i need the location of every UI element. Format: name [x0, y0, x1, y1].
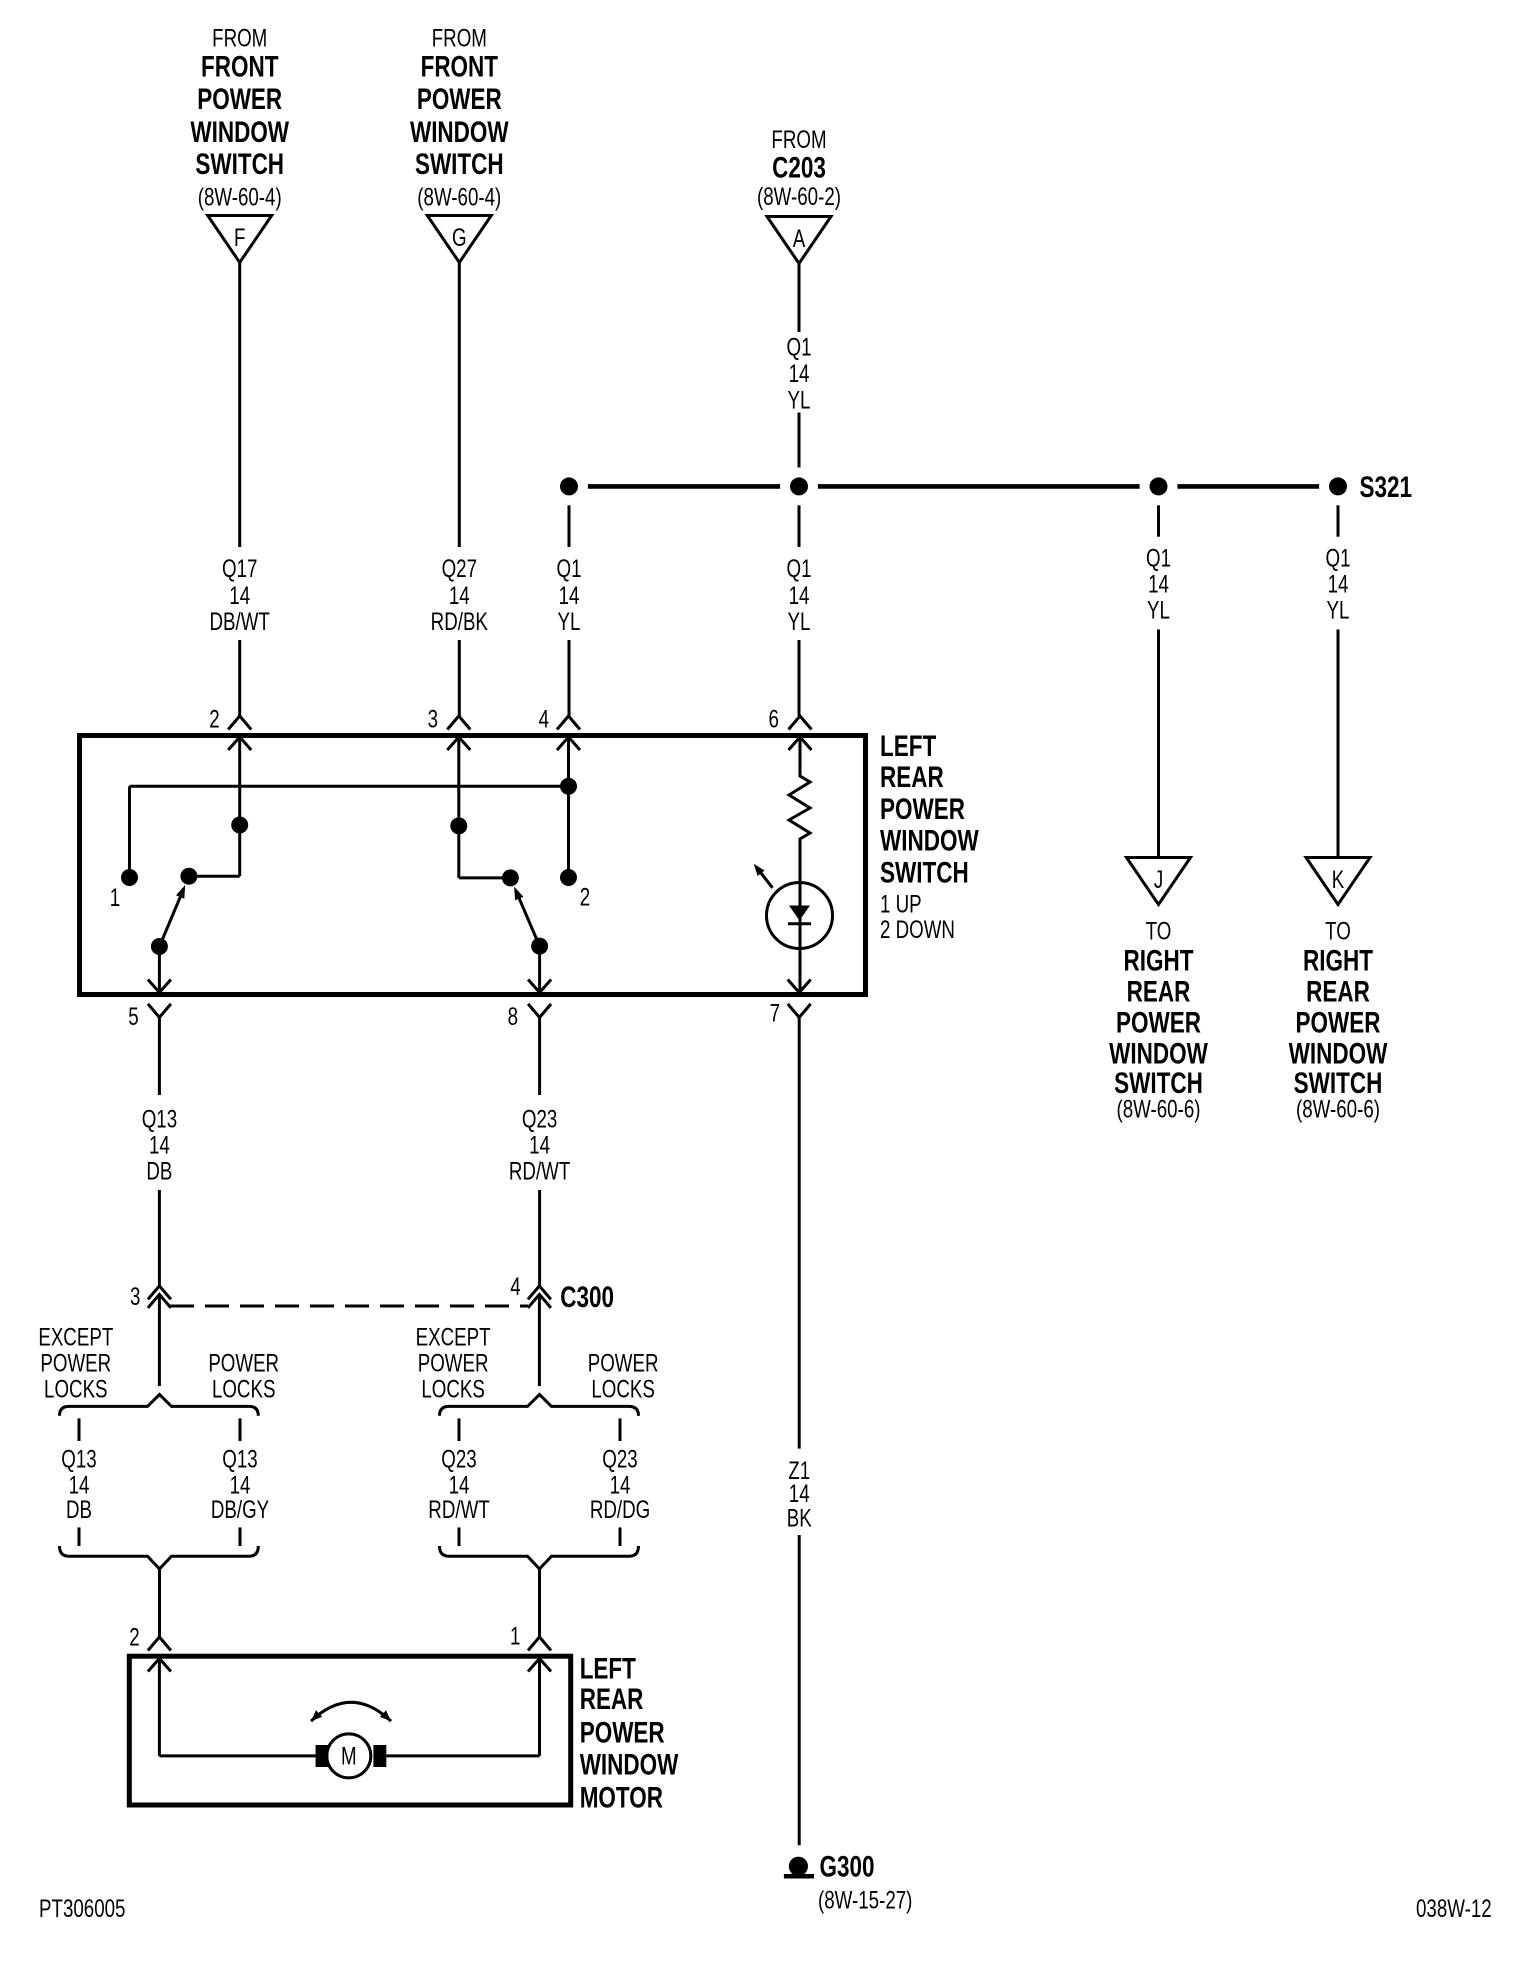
svg-text:YL: YL [1327, 596, 1350, 624]
wire label Q27 14 RD/BK [431, 555, 488, 636]
svg-text:8: 8 [508, 1002, 518, 1030]
wire Z1 14 BK from switch pin 7 to ground G300 [798, 1017, 801, 1845]
connector A (from C203) [767, 217, 831, 264]
svg-text:RIGHT: RIGHT [1124, 943, 1194, 977]
svg-text:POWER: POWER [417, 82, 502, 116]
svg-text:LEFT: LEFT [880, 729, 936, 763]
svg-text:2: 2 [129, 1623, 139, 1651]
switch arm (right pole) with arrowhead [514, 887, 540, 947]
left rear power window motor M1 (body) [129, 1656, 570, 1805]
svg-text:M: M [341, 1742, 357, 1770]
splice junction dot (connector J drop) [1140, 467, 1178, 505]
branch stub lower (Q23 RD/WT) [458, 1527, 461, 1546]
svg-text:REAR: REAR [1127, 974, 1191, 1008]
motor right brush [373, 1745, 386, 1767]
connector J (to right rear power window switch) [1127, 858, 1191, 905]
svg-text:LOCKS: LOCKS [44, 1375, 108, 1403]
svg-text:Q23: Q23 [441, 1445, 476, 1473]
svg-text:RD/BK: RD/BK [431, 608, 488, 636]
connector G label: FROM FRONT POWER WINDOW SWITCH (8W-60-4) [410, 24, 509, 211]
switch pin 3 connector halves [447, 716, 470, 750]
option brace lower (left group) [60, 1546, 259, 1569]
left pole wire to pin 5 [158, 947, 161, 992]
motor name label: LEFT REAR POWER WINDOW MOTOR [580, 1652, 679, 1815]
svg-text:3: 3 [428, 705, 438, 733]
svg-text:14: 14 [789, 581, 810, 609]
svg-text:14: 14 [789, 359, 810, 387]
motor left brush [316, 1745, 329, 1767]
LED emission arrow [754, 864, 773, 888]
branch stub lower (Q23 RD/DG) [619, 1527, 622, 1546]
svg-text:MOTOR: MOTOR [580, 1780, 663, 1814]
svg-text:WINDOW: WINDOW [190, 115, 289, 149]
connector J label: TO RIGHT REAR POWER WINDOW SWITCH (8W-60-6) [1109, 917, 1208, 1123]
svg-text:RD/DG: RD/DG [590, 1496, 650, 1524]
svg-text:14: 14 [559, 581, 580, 609]
svg-text:Q13: Q13 [222, 1445, 257, 1473]
wire Q17 14 DB/WT from connector F to switch pin 2 [238, 263, 241, 717]
svg-text:1 UP: 1 UP [880, 890, 922, 918]
svg-text:POWER: POWER [580, 1715, 665, 1749]
junction dot rail/pin 4 [560, 778, 577, 795]
svg-text:(8W-15-27): (8W-15-27) [818, 1886, 912, 1914]
svg-text:LEFT: LEFT [580, 1652, 636, 1686]
splice S321 bus wire [569, 484, 1338, 489]
connector C300 pin 4 (double chevron) [528, 1286, 551, 1308]
svg-text:EXCEPT: EXCEPT [416, 1323, 491, 1351]
connector C300 pin 3 (double chevron) [148, 1286, 171, 1308]
svg-text:SWITCH: SWITCH [880, 855, 969, 889]
wire label Q1 14 YL (connector K drop) [1326, 544, 1351, 624]
svg-text:F: F [234, 223, 245, 251]
wire from brace to motor pin 1 [538, 1570, 541, 1637]
svg-text:REAR: REAR [1306, 974, 1370, 1008]
svg-text:14: 14 [1148, 570, 1169, 598]
svg-text:Q27: Q27 [442, 555, 477, 583]
splice junction dot S321 (connector K drop) [1319, 467, 1357, 505]
svg-text:RIGHT: RIGHT [1303, 943, 1373, 977]
svg-text:4: 4 [510, 1272, 520, 1300]
switch pin 6 connector halves [789, 716, 812, 750]
svg-text:1: 1 [510, 1622, 520, 1650]
svg-text:RD/WT: RD/WT [428, 1496, 489, 1524]
svg-text:2: 2 [209, 705, 219, 733]
svg-text:YL: YL [788, 608, 811, 636]
svg-text:Q13: Q13 [142, 1105, 177, 1133]
svg-text:2: 2 [580, 883, 590, 911]
svg-text:Q1: Q1 [787, 333, 812, 361]
svg-text:YL: YL [1147, 596, 1170, 624]
svg-text:14: 14 [449, 581, 470, 609]
svg-text:Q1: Q1 [1146, 544, 1171, 572]
internal wire: pin 4 to contact 2 [567, 737, 570, 878]
junction dot on pin 3 branch [450, 817, 467, 834]
svg-text:2 DOWN: 2 DOWN [880, 915, 955, 943]
switch pin 8 connector halves [528, 980, 551, 1018]
option label POWER LOCKS (right) [588, 1349, 659, 1403]
svg-text:14: 14 [229, 581, 250, 609]
svg-text:Q23: Q23 [522, 1105, 557, 1133]
wire from C300 pin 3 to option brace [158, 1294, 161, 1386]
svg-text:SWITCH: SWITCH [415, 147, 504, 181]
option brace lower (right group) [440, 1546, 639, 1569]
left rear power window switch U1 (body) [80, 736, 866, 995]
svg-text:SWITCH: SWITCH [195, 147, 284, 181]
svg-text:4: 4 [539, 705, 549, 733]
svg-text:14: 14 [149, 1131, 170, 1159]
connector C300 body (dashed) [170, 1305, 528, 1308]
internal wire motor to pin 1 [386, 1659, 539, 1756]
LED diode symbol [788, 906, 811, 924]
wire label Q13 14 DB/GY (branch) [211, 1445, 270, 1524]
wire label Q13 14 DB (branch) [61, 1445, 96, 1524]
switch contact (left pole, up position) [180, 868, 197, 885]
svg-text:DB/WT: DB/WT [210, 608, 270, 636]
wire label Q23 14 RD/WT (branch) [428, 1445, 489, 1524]
svg-text:038W-12: 038W-12 [1416, 1894, 1492, 1922]
svg-text:Q23: Q23 [602, 1445, 637, 1473]
ground label G300 (8W-15-27) [818, 1849, 912, 1914]
svg-text:YL: YL [788, 386, 811, 414]
splice junction dot (connector A feed) [780, 467, 818, 505]
connector A label: FROM C203 (8W-60-2) [757, 126, 841, 211]
svg-text:RD/WT: RD/WT [509, 1157, 570, 1185]
svg-text:POWER: POWER [588, 1349, 659, 1377]
svg-text:FROM: FROM [432, 24, 487, 52]
wire label Q13 14 DB [142, 1105, 177, 1186]
motor armature circle M [327, 1734, 371, 1778]
motor pin 2 connector halves [148, 1637, 171, 1672]
svg-text:DB/GY: DB/GY [211, 1496, 270, 1524]
wire Q27 14 RD/BK from connector G to switch pin 3 [458, 263, 461, 717]
branch stub lower (Q13 DB) [78, 1527, 81, 1546]
switch stationary contact 2 (down) [560, 869, 577, 886]
svg-text:5: 5 [128, 1002, 138, 1030]
svg-text:1: 1 [110, 883, 120, 911]
switch pin 2 connector halves [228, 716, 251, 750]
svg-text:14: 14 [1328, 570, 1349, 598]
svg-text:WINDOW: WINDOW [880, 824, 979, 858]
internal wire: common rail from node 1 to pin 4 [130, 786, 569, 877]
svg-text:J: J [1154, 865, 1163, 893]
svg-text:POWER: POWER [1296, 1005, 1381, 1039]
svg-text:REAR: REAR [580, 1682, 644, 1716]
branch stub (except power locks, Q23 RD/WT) [458, 1418, 461, 1441]
switch pin 5 connector halves [148, 980, 171, 1018]
svg-text:REAR: REAR [880, 760, 944, 794]
wire Q1 14 YL from splice to switch pin 6 [798, 486, 801, 716]
wire label Q1 14 YL (pin 6 drop) [787, 555, 812, 636]
wire label Q17 14 DB/WT [210, 555, 270, 636]
wire label Z1 14 BK [787, 1457, 812, 1532]
splice junction dot (pin 4 drop) [550, 467, 588, 505]
connector K label: TO RIGHT REAR POWER WINDOW SWITCH (8W-60-6) [1289, 917, 1388, 1123]
svg-text:Q17: Q17 [222, 555, 257, 583]
option label EXCEPT POWER LOCKS (right) [416, 1323, 491, 1404]
left pole pivot dot [151, 938, 168, 955]
svg-text:POWER: POWER [418, 1349, 489, 1377]
wire from brace to motor pin 2 [158, 1570, 161, 1637]
svg-text:FROM: FROM [212, 24, 267, 52]
wire label Q1 14 YL (pin 4 drop) [557, 555, 582, 636]
junction dot on pin 2 branch [231, 817, 248, 834]
svg-text:PT306005: PT306005 [39, 1894, 125, 1922]
connector K (to right rear power window switch) [1306, 858, 1370, 905]
svg-text:DB: DB [146, 1157, 172, 1185]
switch arm (left pole) with arrowhead [159, 885, 185, 947]
wire Q23 14 RD/WT from switch pin 8 to C300 pin 4 [538, 1017, 541, 1286]
option label POWER LOCKS (left) [208, 1349, 279, 1403]
svg-text:6: 6 [768, 705, 778, 733]
svg-text:POWER: POWER [40, 1349, 111, 1377]
switch contact (right pole) [502, 869, 519, 886]
svg-text:(8W-60-6): (8W-60-6) [1117, 1095, 1201, 1123]
internal wire: pin 2 to up-contact [189, 737, 240, 876]
svg-text:(8W-60-6): (8W-60-6) [1296, 1095, 1380, 1123]
branch stub (power locks, Q23 RD/DG) [619, 1418, 622, 1441]
wire label Q23 14 RD/DG (branch) [590, 1445, 650, 1524]
connector G (from front power window switch) [427, 216, 491, 263]
svg-text:C203: C203 [772, 150, 826, 184]
internal wire: pin 3 to down-contact [459, 737, 511, 878]
svg-text:Q1: Q1 [787, 555, 812, 583]
svg-text:TO: TO [1325, 917, 1351, 945]
svg-text:S321: S321 [1360, 470, 1413, 504]
svg-text:Q1: Q1 [1326, 544, 1351, 572]
switch pin 7 connector halves [788, 980, 811, 1018]
svg-text:Q13: Q13 [61, 1445, 96, 1473]
right pole wire to pin 8 [538, 946, 541, 991]
resistor R (illumination dropping resistor) [789, 737, 810, 993]
svg-text:Q1: Q1 [557, 555, 582, 583]
motor rotation arrow (bidirectional arc) [311, 1702, 391, 1721]
svg-text:POWER: POWER [208, 1349, 279, 1377]
svg-text:LOCKS: LOCKS [591, 1375, 655, 1403]
svg-text:EXCEPT: EXCEPT [38, 1323, 113, 1351]
svg-text:LOCKS: LOCKS [212, 1375, 276, 1403]
svg-text:(8W-60-2): (8W-60-2) [757, 182, 841, 210]
switch name label: LEFT REAR POWER WINDOW SWITCH 1 UP 2 DOWN [880, 729, 979, 944]
motor pin 1 connector halves [528, 1637, 551, 1672]
option brace upper (right group) [440, 1395, 639, 1416]
wire Q1 14 YL from splice to connector J [1157, 486, 1160, 857]
svg-text:K: K [1332, 865, 1345, 893]
svg-text:POWER: POWER [1116, 1005, 1201, 1039]
connector F label: FROM FRONT POWER WINDOW SWITCH (8W-60-4) [190, 24, 289, 211]
wire label Q1 14 YL (above splice) [787, 333, 812, 414]
wire from C300 pin 4 to option brace [538, 1294, 541, 1386]
connector F (from front power window switch) [208, 216, 272, 263]
branch stub (except power locks, Q13 DB) [78, 1418, 81, 1441]
wire Q1 14 YL from connector A to splice S321 [798, 264, 801, 471]
right pole pivot dot [531, 938, 548, 955]
svg-text:7: 7 [770, 999, 780, 1027]
wire label Q1 14 YL (connector J drop) [1146, 544, 1171, 624]
branch stub lower (Q13 DB/GY) [239, 1527, 242, 1546]
svg-text:LOCKS: LOCKS [421, 1375, 485, 1403]
svg-text:14: 14 [529, 1131, 550, 1159]
option label EXCEPT POWER LOCKS (left) [38, 1323, 113, 1404]
svg-text:FRONT: FRONT [421, 49, 498, 83]
switch pin 4 connector halves [557, 716, 580, 750]
svg-text:A: A [793, 224, 806, 252]
svg-text:DB: DB [66, 1496, 92, 1524]
svg-text:3: 3 [130, 1282, 140, 1310]
LED indicator lamp (circle) [767, 883, 833, 949]
svg-text:WINDOW: WINDOW [410, 115, 509, 149]
wire Q1 14 YL from splice to switch pin 4 [568, 486, 571, 716]
svg-text:POWER: POWER [880, 792, 965, 826]
branch stub (power locks, Q13 DB/GY) [239, 1418, 242, 1441]
wire Q13 14 DB from switch pin 5 to C300 pin 3 [158, 1017, 161, 1286]
wire Q1 14 YL from splice to connector K [1337, 486, 1340, 857]
svg-text:C300: C300 [560, 1280, 614, 1314]
svg-text:(8W-60-4): (8W-60-4) [417, 183, 501, 211]
switch stationary contact 1 (up) [121, 869, 138, 886]
svg-text:G: G [452, 223, 467, 251]
svg-text:WINDOW: WINDOW [580, 1747, 679, 1781]
ground G300 symbol [784, 1857, 814, 1877]
svg-text:BK: BK [787, 1504, 812, 1532]
svg-text:POWER: POWER [197, 82, 282, 116]
svg-text:G300: G300 [820, 1849, 875, 1883]
internal wire pin 2 to motor [159, 1659, 316, 1756]
svg-text:YL: YL [558, 608, 581, 636]
svg-text:FRONT: FRONT [201, 49, 278, 83]
wire label Q23 14 RD/WT [509, 1105, 570, 1186]
svg-text:(8W-60-4): (8W-60-4) [198, 183, 282, 211]
svg-text:TO: TO [1146, 917, 1172, 945]
option brace upper (left group) [60, 1395, 259, 1416]
